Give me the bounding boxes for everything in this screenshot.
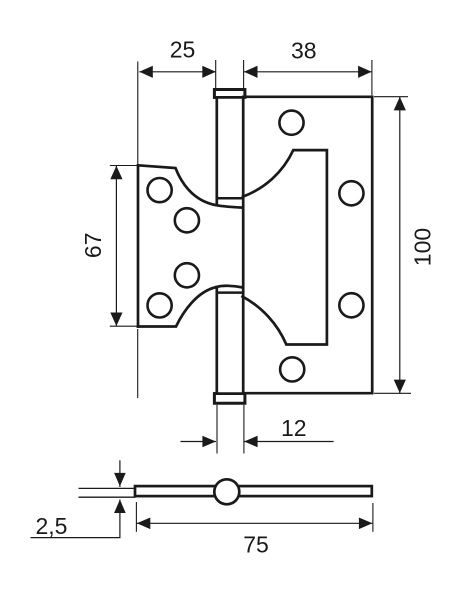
dim line 67 — [115, 166, 117, 326]
ext line 67 bottom — [110, 325, 137, 327]
ext line 100 bottom — [374, 392, 411, 394]
arrow 67 up — [110, 166, 122, 180]
arrow 75 left — [137, 518, 151, 530]
svg-text:25: 25 — [170, 36, 196, 62]
dimension texts — [36, 36, 436, 557]
knuckle right wall — [242, 97, 245, 393]
dimension extension lines — [110, 60, 411, 532]
arrow 38 left — [244, 66, 258, 78]
knuckle top cap — [214, 90, 245, 98]
ext line plate right top — [371, 60, 373, 95]
svg-text:100: 100 — [410, 228, 436, 266]
arrowheads — [110, 66, 406, 529]
knuckle bottom collar line — [214, 392, 243, 395]
ext line 100 top — [374, 96, 408, 98]
dim line 12 left part — [181, 441, 216, 443]
ext line 67 top — [110, 165, 137, 167]
left leaf outline — [138, 165, 243, 326]
side view plate bar — [135, 486, 372, 496]
svg-text:2,5: 2,5 — [36, 513, 68, 539]
left leaf hole lower-middle — [175, 263, 199, 287]
dim line 75 — [137, 522, 373, 524]
arrow 38 right — [358, 66, 372, 78]
arrow 67 down — [110, 313, 122, 327]
ext line knuckle right — [243, 60, 245, 89]
svg-text:38: 38 — [291, 38, 317, 64]
knuckle waist collar top — [217, 197, 243, 200]
right plate hole top — [279, 111, 303, 135]
dim line 2,5 lower with leader — [31, 500, 120, 538]
left leaf hole bottom-left — [148, 293, 172, 317]
arrow 2,5 down — [114, 473, 126, 487]
knuckle bottom cap — [214, 394, 245, 404]
side view knuckle circle — [214, 479, 239, 504]
ext line 75 left — [135, 502, 137, 532]
knuckle left wall lower — [215, 287, 218, 394]
ext line left leaf top-left — [137, 62, 139, 165]
dim line 2,5 upper — [119, 460, 121, 487]
side view thin leaf top line — [79, 487, 136, 489]
dim line 100 — [399, 97, 401, 393]
arrow 100 down — [394, 380, 406, 394]
arrow 2,5 up — [114, 500, 126, 514]
svg-text:12: 12 — [281, 415, 307, 441]
right plate hole upper-right — [339, 181, 363, 205]
ext line 75 right — [372, 503, 374, 532]
dim line 12 right part — [244, 441, 334, 443]
side view thin leaf bottom line — [79, 496, 136, 498]
svg-text:75: 75 — [243, 532, 269, 558]
dim line 25 — [139, 71, 216, 73]
knuckle left wall upper — [215, 97, 218, 204]
ext line 12 right — [243, 405, 245, 454]
dimension lines — [31, 72, 400, 538]
right plate hole lower-right — [339, 293, 363, 317]
right plate hole bottom — [280, 357, 304, 381]
knuckle waist collar bottom — [217, 291, 243, 294]
hanging ext line below left leaf — [137, 329, 139, 398]
svg-text:67: 67 — [80, 233, 106, 259]
left leaf hole upper-middle — [175, 208, 199, 232]
arrow 12 right — [202, 436, 216, 448]
arrow 75 right — [359, 518, 373, 530]
arrow 12 left — [244, 436, 258, 448]
ext line knuckle left — [215, 60, 217, 89]
ext line 12 left — [216, 405, 218, 454]
side view — [135, 479, 372, 504]
arrow 25 left — [139, 66, 153, 78]
right plate cutout — [243, 150, 327, 344]
arrow 25 right — [202, 66, 216, 78]
knuckle top collar line — [214, 96, 243, 99]
dim line 38 — [244, 71, 372, 73]
arrow 100 up — [394, 97, 406, 111]
left leaf hole top-left — [148, 178, 172, 202]
right plate outline — [243, 97, 372, 393]
